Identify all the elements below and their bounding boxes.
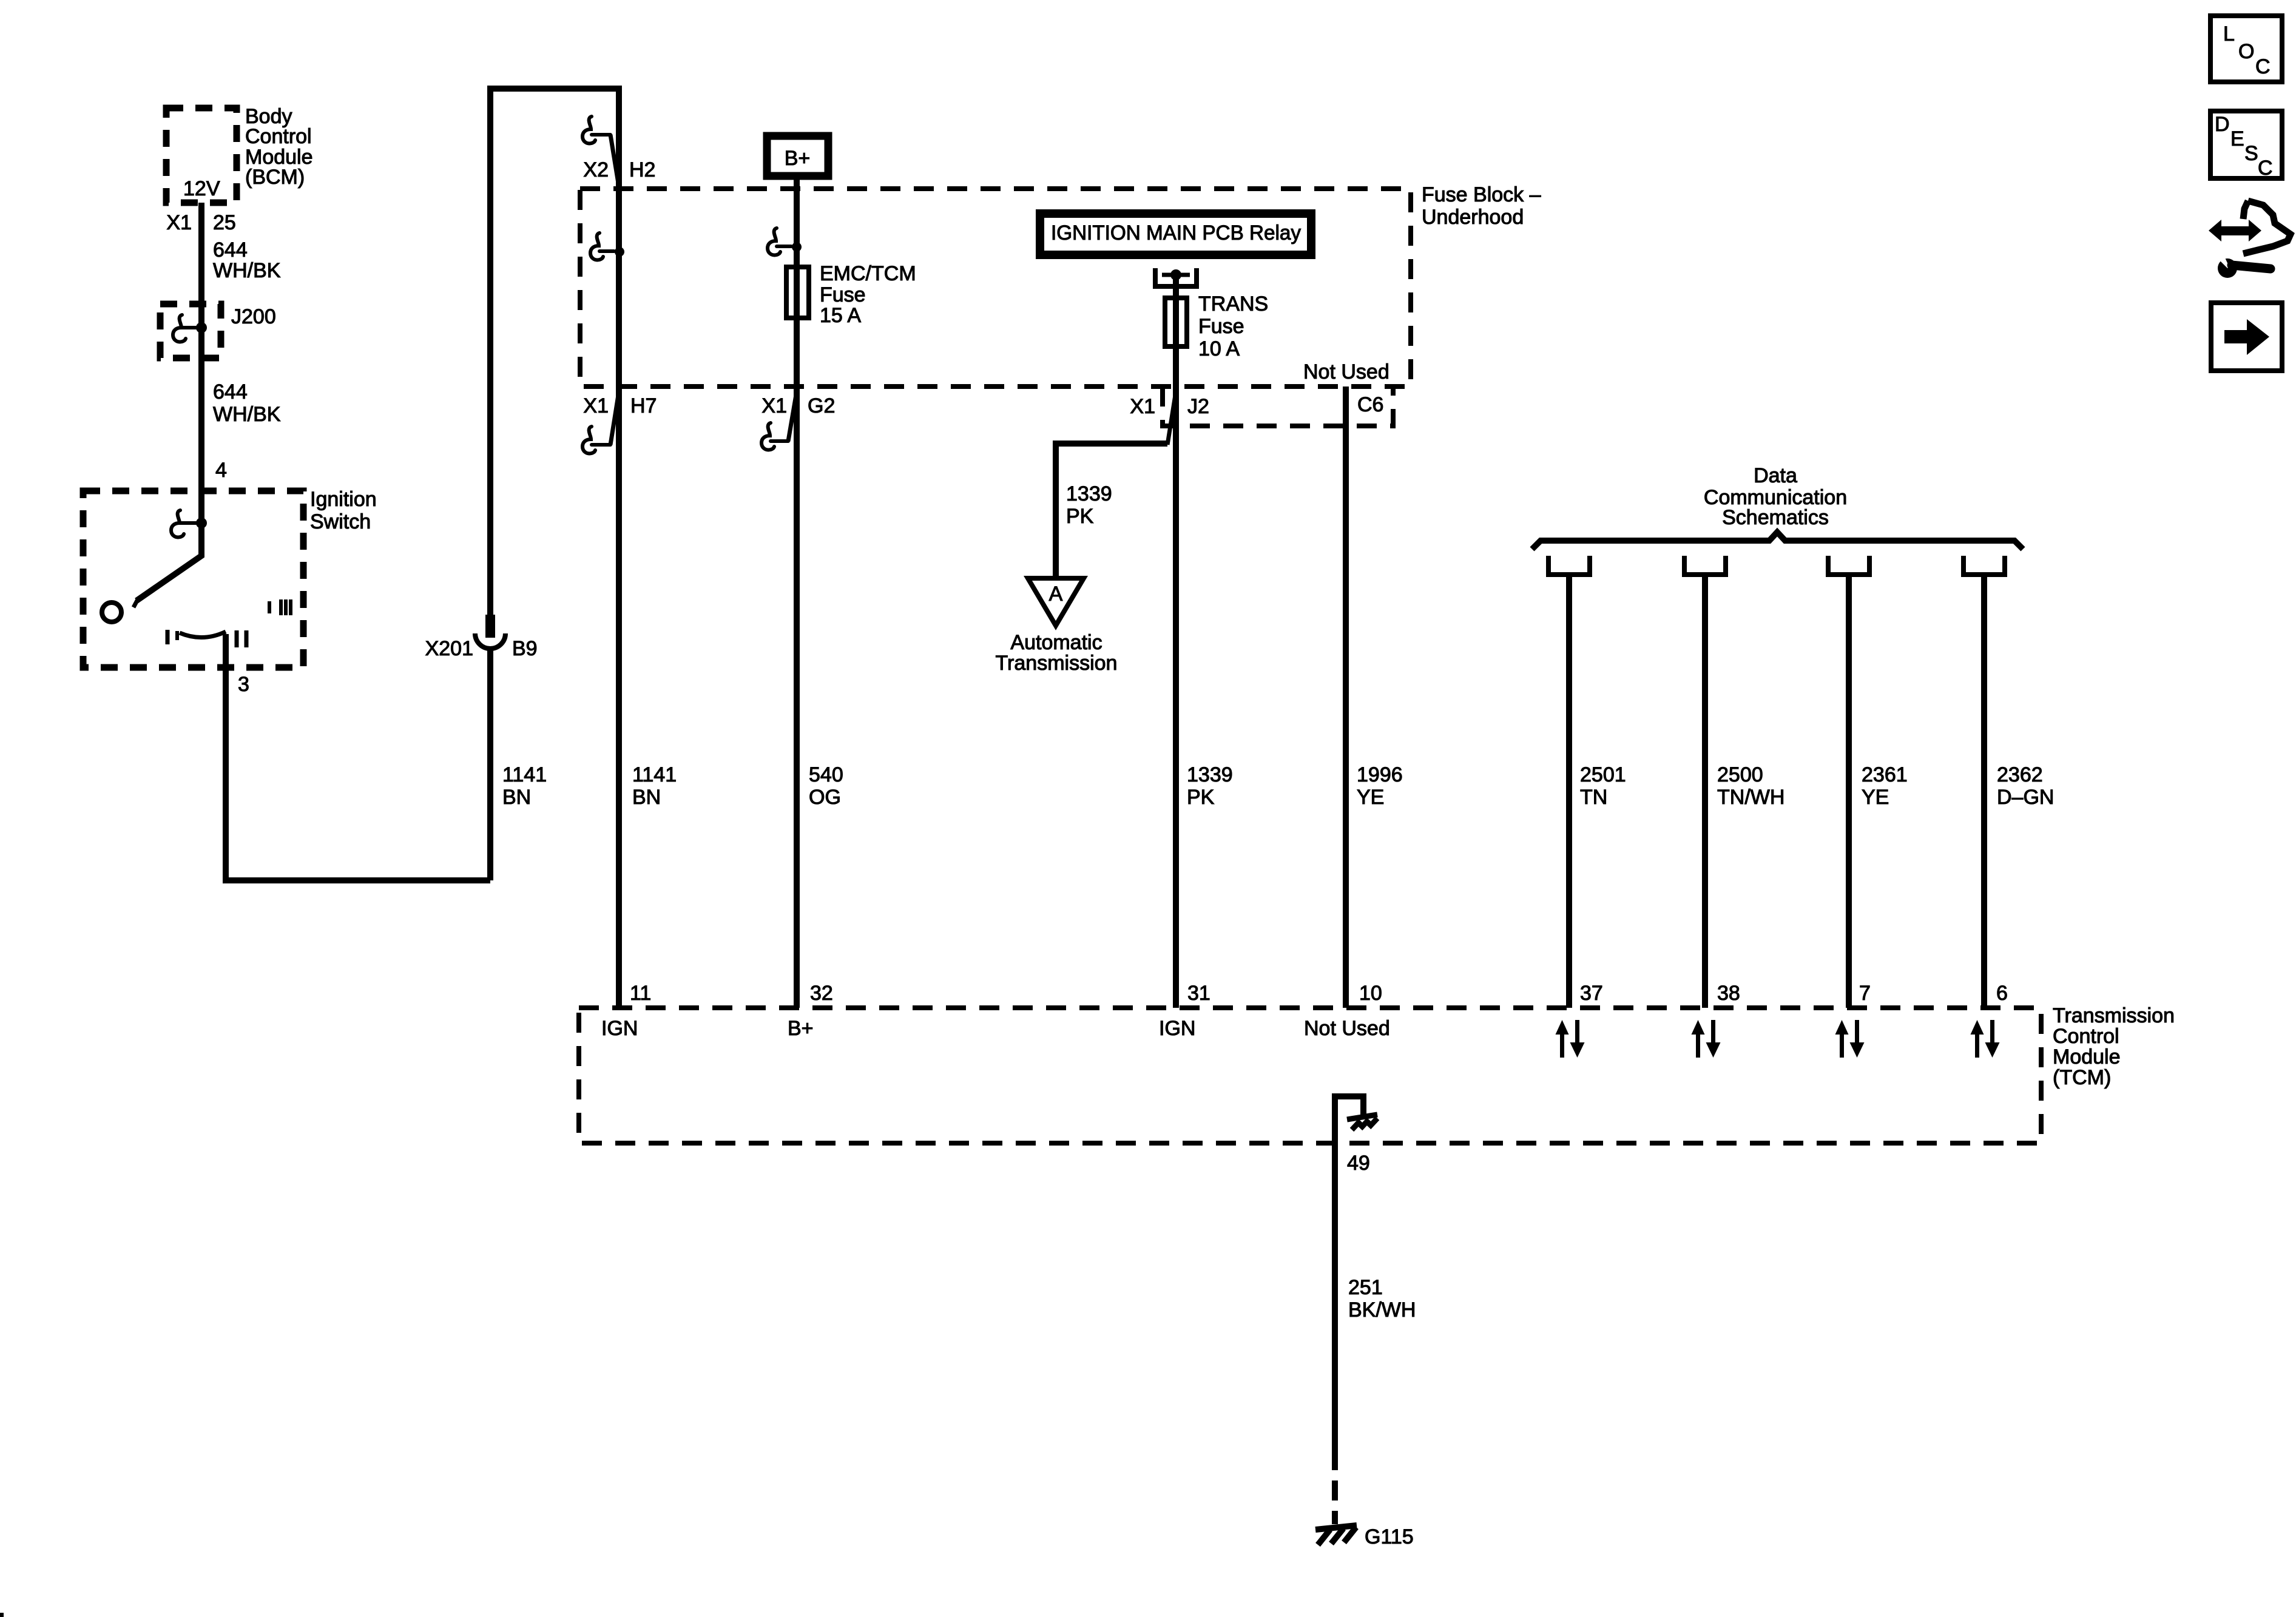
wire 540 OG main vertical — [794, 180, 800, 1008]
svg-text:4: 4 — [215, 459, 227, 482]
next-page arrow — [2224, 319, 2269, 355]
svg-text:X201: X201 — [425, 637, 473, 660]
svg-text:J200: J200 — [231, 305, 276, 328]
svg-text:Automatic: Automatic — [1010, 631, 1102, 654]
svg-text:644: 644 — [213, 238, 248, 262]
connector X1 H7 diagonal — [610, 391, 619, 445]
wire 251 BK/WH — [1332, 1143, 1338, 1450]
svg-text:Control: Control — [2053, 1025, 2119, 1048]
svg-text:X1: X1 — [166, 211, 192, 234]
svg-text:D: D — [2215, 113, 2230, 136]
wire 2361 YE — [1846, 575, 1852, 1008]
svg-text:EMC/TCM: EMC/TCM — [820, 262, 916, 285]
B+ power box — [767, 136, 828, 176]
TCM module box — [579, 1008, 2041, 1143]
wire 2500 TN/WH — [1702, 575, 1708, 1008]
data connector cup 2 — [1684, 556, 1726, 575]
svg-text:10 A: 10 A — [1198, 337, 1240, 360]
svg-text:TN/WH: TN/WH — [1717, 786, 1784, 809]
svg-text:1141: 1141 — [632, 763, 677, 786]
svg-text:BN: BN — [502, 786, 531, 809]
svg-text:YE: YE — [1357, 786, 1384, 809]
connector X1 H7 hook — [582, 427, 595, 453]
LOC icon box — [2210, 16, 2282, 82]
svg-text:TN: TN — [1580, 786, 1607, 809]
svg-text:540: 540 — [809, 763, 843, 786]
svg-text:H2: H2 — [629, 158, 655, 181]
svg-text:IGN: IGN — [601, 1017, 638, 1040]
data arrows pair 4 — [1971, 1020, 2000, 1058]
ignition switch movable arm — [137, 523, 201, 601]
svg-text:15 A: 15 A — [820, 304, 861, 327]
fuse block underhood box — [580, 189, 1411, 387]
svg-text:Fuse Block –: Fuse Block – — [1422, 183, 1541, 206]
J200 hook symbol — [173, 315, 186, 342]
svg-text:7: 7 — [1859, 982, 1871, 1005]
svg-text:BN: BN — [632, 786, 661, 809]
ground G115 symbol — [1315, 1525, 1357, 1545]
svg-text:Control: Control — [245, 125, 312, 148]
svg-text:644: 644 — [213, 380, 248, 403]
svg-text:1339: 1339 — [1187, 763, 1233, 786]
svg-text:H7: H7 — [630, 394, 657, 417]
svg-text:6: 6 — [1996, 982, 2008, 1005]
svg-text:Transmission: Transmission — [2053, 1004, 2175, 1027]
svg-text:Schematics: Schematics — [1722, 506, 1829, 529]
connector X2 H2 hook — [582, 116, 595, 143]
relay pin bar — [1162, 273, 1190, 277]
svg-text:E: E — [2230, 127, 2244, 150]
svg-text:1141: 1141 — [502, 763, 547, 786]
relay pin junction dot — [1170, 269, 1181, 280]
svg-text:10: 10 — [1359, 982, 1382, 1005]
svg-text:WH/BK: WH/BK — [213, 403, 281, 426]
wire 1996 YE vertical — [1343, 387, 1349, 1008]
ignition switch contact circle — [102, 603, 121, 622]
junction dot on 1141 wire — [615, 247, 624, 257]
wire 2362 D-GN — [1981, 575, 1987, 1008]
switch contact arc — [180, 632, 226, 638]
diagnostic icon double arrow — [2209, 220, 2261, 241]
svg-text:OG: OG — [809, 786, 841, 809]
svg-text:TRANS: TRANS — [1198, 292, 1268, 316]
hook and junction on 540 wire inside fuse block — [768, 228, 780, 255]
svg-text:38: 38 — [1717, 982, 1740, 1005]
X201 riser wire upper — [487, 650, 493, 880]
svg-text:B+: B+ — [788, 1017, 814, 1040]
position I contact tick — [175, 631, 179, 640]
hook and junction inside fuse block on 1141 wire — [590, 233, 603, 260]
svg-text:37: 37 — [1580, 982, 1603, 1005]
data arrows pair 1 — [1556, 1020, 1585, 1058]
svg-text:X1: X1 — [583, 394, 609, 417]
svg-text:IGNITION MAIN PCB Relay: IGNITION MAIN PCB Relay — [1051, 221, 1301, 245]
svg-text:X1: X1 — [1130, 395, 1155, 418]
svg-text:31: 31 — [1187, 982, 1210, 1005]
connector X1 G2 diagonal — [788, 391, 797, 441]
svg-text:A: A — [1049, 582, 1063, 606]
svg-text:O: O — [2238, 40, 2254, 63]
svg-text:3: 3 — [238, 673, 249, 696]
svg-text:1339: 1339 — [1066, 482, 1112, 505]
BCM module box — [166, 108, 237, 203]
svg-text:X1: X1 — [761, 394, 787, 417]
wire 2501 TN — [1566, 575, 1572, 1008]
fuse block extension box — [1163, 387, 1393, 426]
TCM internal ground wire — [1335, 1096, 1363, 1144]
data arrows pair 2 — [1692, 1020, 1721, 1058]
next-page arrow box — [2211, 303, 2282, 371]
svg-text:Transmission: Transmission — [996, 652, 1118, 675]
svg-text:1996: 1996 — [1357, 763, 1403, 786]
position II label bars — [235, 630, 239, 647]
ignition switch hook symbol — [171, 510, 184, 537]
X201 riser wire lower — [490, 89, 619, 615]
svg-text:49: 49 — [1347, 1152, 1370, 1175]
svg-text:BK/WH: BK/WH — [1348, 1298, 1416, 1322]
J200 junction dot — [196, 322, 207, 333]
svg-text:B9: B9 — [512, 637, 538, 660]
data connector cup 1 — [1548, 556, 1590, 575]
svg-text:2500: 2500 — [1717, 763, 1763, 786]
splice J200 box — [160, 304, 221, 358]
EMC/TCM fuse — [786, 267, 809, 318]
svg-text:Data: Data — [1754, 464, 1797, 487]
wire from switch pin 3 down and right — [226, 634, 490, 880]
svg-text:S: S — [2244, 142, 2258, 165]
IGNITION MAIN PCB Relay box — [1040, 214, 1311, 255]
position I label bar — [166, 630, 170, 644]
svg-text:(BCM): (BCM) — [245, 166, 305, 189]
svg-text:12V: 12V — [183, 177, 220, 200]
svg-text:J2: J2 — [1187, 395, 1209, 418]
connector X1 J2 diagonal — [1167, 391, 1176, 445]
svg-text:PK: PK — [1187, 786, 1215, 809]
X201 connector male pin — [485, 615, 495, 638]
svg-text:IGN: IGN — [1159, 1017, 1195, 1040]
svg-text:PK: PK — [1066, 505, 1094, 528]
svg-text:Switch: Switch — [310, 510, 371, 533]
diagnostic icon car outline — [2243, 201, 2291, 254]
svg-text:Fuse: Fuse — [1198, 315, 1244, 338]
svg-text:Ignition: Ignition — [310, 488, 377, 511]
relay pin cup bracket — [1155, 268, 1197, 286]
svg-text:C: C — [2258, 157, 2273, 180]
brace over data wires — [1532, 532, 2023, 549]
svg-text:YE: YE — [1862, 786, 1889, 809]
svg-text:WH/BK: WH/BK — [213, 259, 281, 282]
svg-text:X2: X2 — [583, 158, 609, 181]
connector X1 G2 hook — [761, 423, 774, 450]
ignition switch junction dot — [196, 518, 207, 528]
svg-text:D–GN: D–GN — [1997, 786, 2054, 809]
svg-text:2362: 2362 — [1997, 763, 2043, 786]
DESC icon box — [2210, 111, 2282, 178]
svg-text:25: 25 — [213, 211, 236, 234]
svg-text:2501: 2501 — [1580, 763, 1626, 786]
svg-text:Underhood: Underhood — [1422, 206, 1524, 229]
svg-text:Module: Module — [2053, 1045, 2121, 1068]
wire 1141 BN main vertical — [616, 86, 622, 1008]
automatic transmission triangle — [1028, 578, 1084, 626]
svg-text:L: L — [2223, 22, 2235, 46]
svg-text:2361: 2361 — [1862, 763, 1908, 786]
svg-text:251: 251 — [1348, 1276, 1383, 1299]
data connector cup 4 — [1963, 556, 2005, 575]
wire 1339 PK main vertical — [1173, 275, 1179, 1008]
svg-text:C6: C6 — [1357, 393, 1383, 416]
position III label bars — [279, 599, 283, 615]
data connector cup 3 — [1828, 556, 1869, 575]
dashed wire to G115 — [1332, 1450, 1338, 1524]
svg-text:(TCM): (TCM) — [2053, 1066, 2111, 1089]
diagnostic icon wrench — [2218, 258, 2237, 278]
svg-text:Not Used: Not Used — [1303, 360, 1389, 383]
svg-text:B+: B+ — [785, 147, 811, 170]
X201 connector female cup — [475, 633, 505, 649]
branch wire to automatic transmission — [1056, 444, 1167, 578]
svg-text:Fuse: Fuse — [820, 283, 866, 306]
TCM internal ground symbol — [1347, 1115, 1377, 1130]
connector X2 H2 diagonal — [610, 135, 619, 187]
svg-text:11: 11 — [630, 982, 651, 1005]
page corner mark — [0, 1613, 4, 1617]
svg-text:Not Used: Not Used — [1304, 1017, 1390, 1040]
svg-text:C: C — [2255, 55, 2271, 78]
svg-text:G2: G2 — [808, 394, 835, 417]
data arrows pair 3 — [1835, 1020, 1865, 1058]
position III contact tick — [268, 601, 271, 613]
wire 644 WH/BK from BCM to ignition switch — [198, 203, 204, 523]
ignition switch box — [83, 491, 303, 667]
svg-text:32: 32 — [810, 982, 833, 1005]
svg-text:G115: G115 — [1365, 1525, 1414, 1548]
TRANS fuse — [1165, 298, 1187, 346]
junction dot on 540 wire — [792, 242, 802, 252]
